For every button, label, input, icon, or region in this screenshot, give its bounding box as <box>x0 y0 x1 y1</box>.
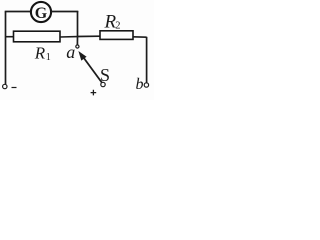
switch S pivot circle <box>101 82 105 86</box>
terminal b circle <box>144 83 148 87</box>
svg-text:a: a <box>66 42 75 62</box>
resistor R1 <box>14 31 61 42</box>
galvanometer G <box>31 2 51 22</box>
svg-text:2: 2 <box>115 21 120 32</box>
terminal minus circle <box>3 84 7 88</box>
wire down from top to node a <box>77 11 79 37</box>
wire left rail to R1 <box>5 36 14 38</box>
switch S arrowhead <box>78 51 86 61</box>
wire left rail <box>5 12 7 85</box>
svg-text:b: b <box>136 76 144 93</box>
wire right rail <box>146 37 148 83</box>
label plus <box>91 90 97 96</box>
node a dot <box>76 45 79 48</box>
switch S blade <box>82 56 102 83</box>
wire top left <box>5 11 31 13</box>
svg-text:R: R <box>34 44 46 63</box>
node a stub <box>76 37 78 46</box>
wire node a to R2 <box>78 35 101 37</box>
resistor R2 <box>100 31 133 40</box>
svg-text:G: G <box>35 5 48 22</box>
wire R1 to node a <box>60 36 78 38</box>
label minus <box>12 87 17 89</box>
wire top right of G <box>51 11 78 13</box>
wire R2 to right rail <box>133 36 147 38</box>
svg-text:1: 1 <box>46 52 51 63</box>
svg-text:S: S <box>100 65 110 85</box>
